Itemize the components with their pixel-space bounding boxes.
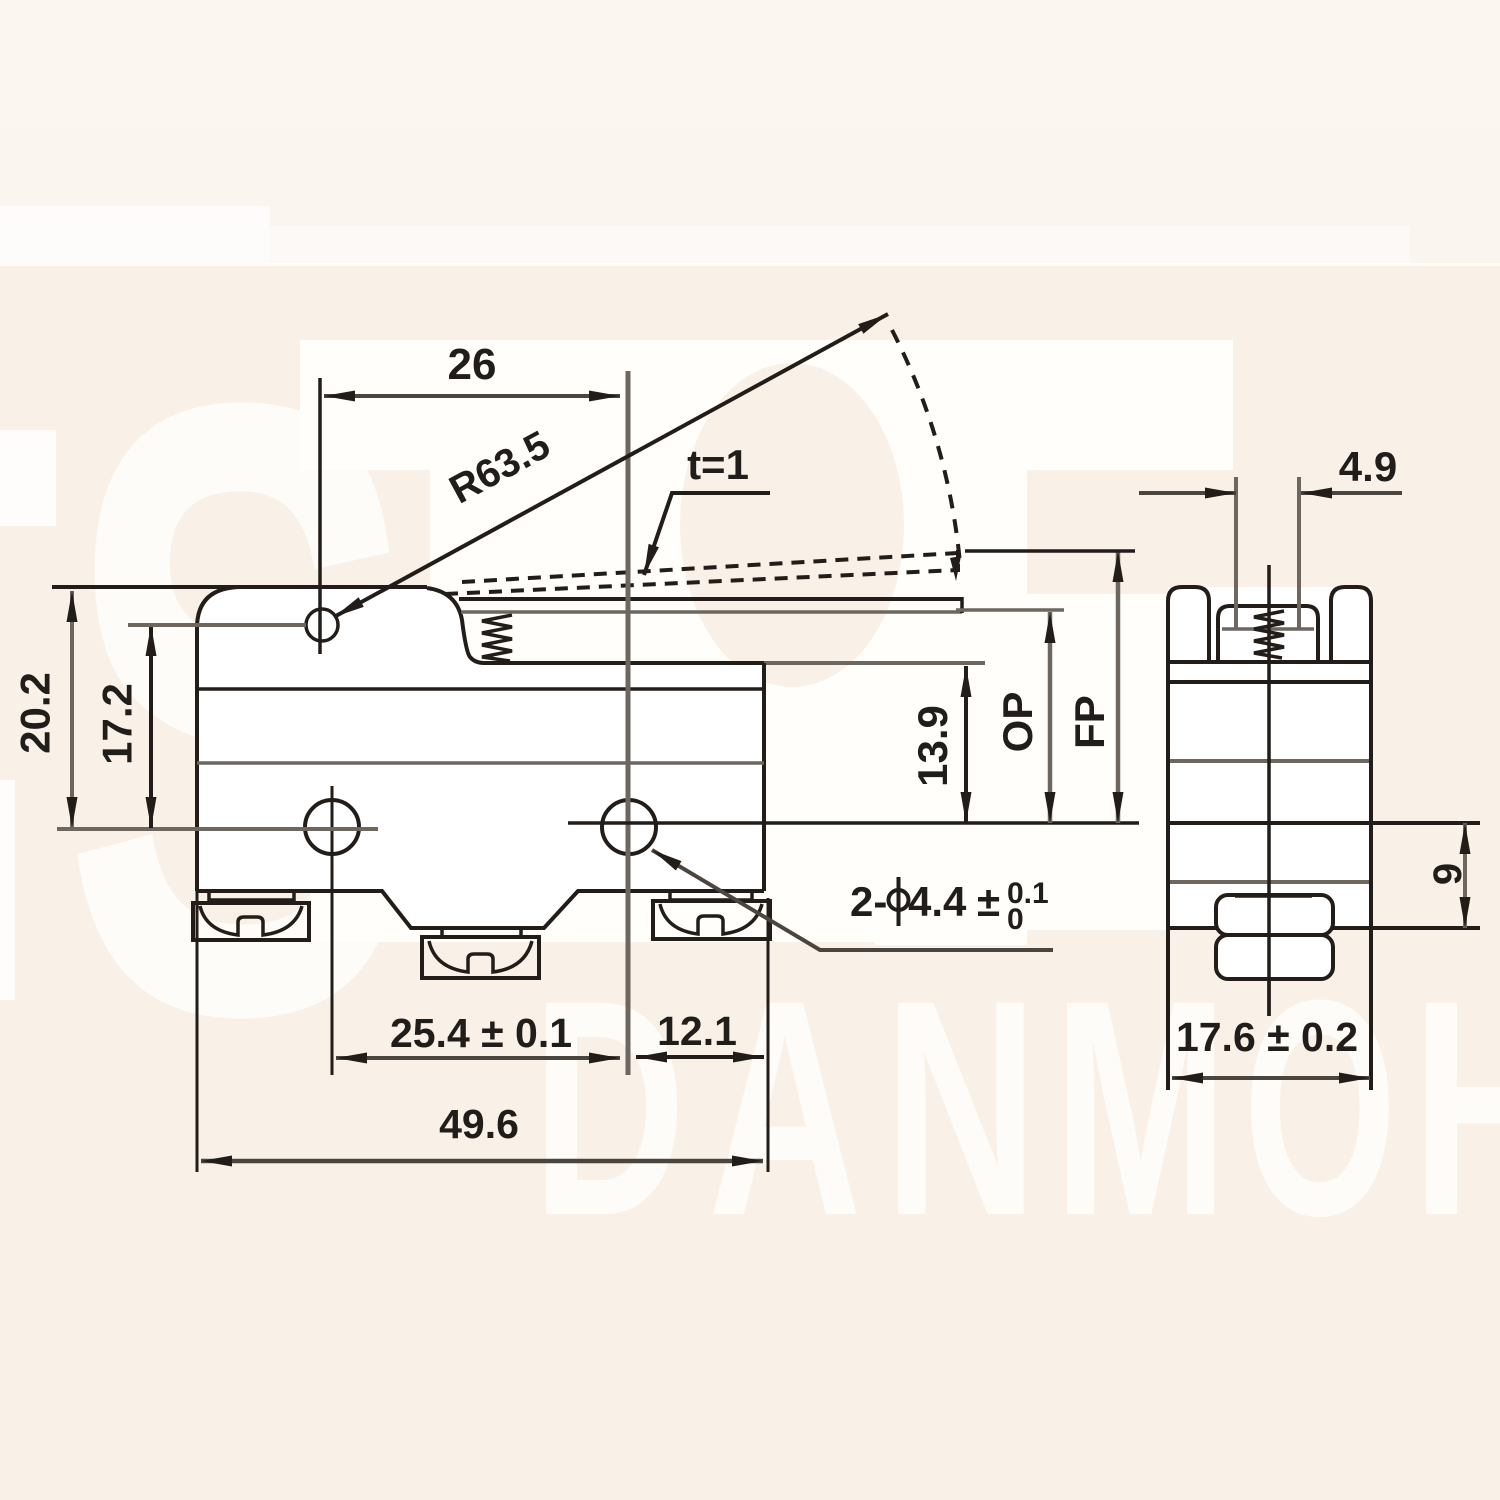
watermark top band (0, 0, 1500, 264)
watermark white cloud (300, 340, 1233, 945)
terminal 1 screw dome and slot (200, 906, 302, 935)
dim 26 line (324, 394, 620, 398)
spring inside recess (482, 615, 512, 661)
left hole horizontal centerline (grey) (57, 827, 378, 831)
main view body white fill (197, 587, 764, 928)
12.1 right extension line (767, 898, 770, 1172)
dim 4.9 line right part (1301, 491, 1402, 495)
left mounting hole (305, 800, 359, 854)
lever tip end cap (960, 597, 964, 613)
plunger recess hook curve (427, 588, 484, 663)
terminal 3 tab (670, 891, 752, 900)
side terminal lower box (1216, 935, 1333, 979)
dim 4.9 line left part (1139, 491, 1236, 495)
left edge white slivers (0, 430, 56, 526)
side view vertical centerline (1267, 565, 1271, 1016)
right ear (lever edge) (1331, 587, 1371, 662)
svg-text:OP: OP (994, 692, 1041, 753)
body left edge extension down to 49.6 dim (196, 891, 199, 1172)
terminal 2 screw dome and slot (429, 941, 532, 972)
svg-text:FP: FP (1066, 695, 1113, 749)
R63.5 leader line (334, 314, 888, 617)
svg-text:2-: 2- (850, 878, 887, 925)
terminal 1 tab (209, 891, 294, 900)
terminal 1 head box (193, 903, 309, 940)
side view body white fill (1168, 587, 1371, 928)
side centerline through terminal (1267, 895, 1271, 1016)
lever free position upper dashed line (462, 553, 958, 582)
svg-text:17.2: 17.2 (94, 683, 141, 765)
body top right shelf line (484, 661, 764, 665)
svg-text:25.4 ± 0.1: 25.4 ± 0.1 (390, 1010, 572, 1056)
body right edge (762, 663, 766, 891)
lever top line (solid, operated position) (459, 597, 962, 601)
svg-text:D: D (532, 937, 686, 1280)
plunger block (1218, 606, 1318, 660)
13.9 top extension line (grey) (764, 661, 985, 665)
lever swing dashed arc (892, 330, 960, 563)
left hole vertical centerline / 25.4 extension (331, 786, 334, 1075)
t=1 leader (644, 493, 770, 575)
OP top extension line (956, 608, 1064, 612)
svg-text:t=1: t=1 (687, 441, 749, 488)
svg-text:0: 0 (1007, 903, 1024, 936)
side body top line (1168, 660, 1371, 664)
terminal 3 head box (653, 901, 770, 939)
pivot hole (306, 609, 338, 641)
dim 17.6 line (1172, 1076, 1370, 1080)
svg-text:4.9: 4.9 (1339, 443, 1397, 490)
lever free position dashed end cap (956, 550, 960, 572)
left ear (lever edge) (1168, 587, 1209, 662)
long grey vertical extension (26 right / 12.1 left) (626, 371, 631, 1075)
dim 12.1 line (636, 1055, 764, 1059)
side body line 4 (grey) (1168, 880, 1371, 884)
svg-text:26: 26 (448, 340, 497, 389)
body internal seam line 2 (grey) (197, 761, 764, 765)
lever bottom line (grey) (461, 610, 962, 614)
svg-text:M: M (1053, 937, 1228, 1280)
right hole horizontal centerline / dim reference (568, 821, 1139, 825)
17.2 top extension line (grey) (128, 623, 306, 627)
side body bottom + 9 bottom extension (1168, 926, 1480, 930)
lever free position lower dashed line (445, 570, 958, 594)
side body line 2 (1168, 680, 1371, 684)
2-phi4.4 leader line (652, 850, 1053, 950)
FP top extension line (965, 549, 1135, 553)
dim 17.2 line (149, 625, 153, 828)
dim 25.4 line (336, 1056, 620, 1060)
svg-text:20.2: 20.2 (12, 672, 59, 754)
plunger internal grey line (1222, 627, 1314, 631)
svg-text:49.6: 49.6 (439, 1101, 519, 1147)
side body hole centerline + 9 top extension (1168, 821, 1480, 825)
side view spring (1254, 611, 1284, 658)
right mounting hole (602, 800, 656, 854)
svg-text:12.1: 12.1 (657, 1008, 737, 1054)
dim OP line (1048, 612, 1053, 823)
terminal 2 tab (442, 928, 521, 937)
side terminal inner top line (1235, 894, 1312, 898)
svg-text:13.9: 13.9 (909, 705, 956, 787)
terminal 2 head box (422, 937, 539, 978)
svg-text:A: A (708, 937, 862, 1280)
body internal seam line 1 (197, 687, 764, 691)
dim 13.9 line (964, 666, 968, 823)
svg-text:H: H (1412, 937, 1500, 1280)
side body line 3 (grey) (1168, 759, 1371, 763)
pivot vertical centerline / 26 left extension (318, 378, 322, 654)
dim FP line (1116, 551, 1121, 823)
dim 9 line (1463, 823, 1467, 928)
svg-text:9: 9 (1426, 863, 1470, 885)
4.9 left extension line (1234, 477, 1238, 628)
dim 20.2 line (70, 591, 74, 828)
cream blob over cloud (680, 363, 904, 687)
side body left edge + 17.6 extension (1166, 662, 1170, 1090)
terminal 3 screw dome and slot (660, 904, 762, 934)
4.9 right extension line (1297, 477, 1301, 628)
body bottom edge with terminal notch (197, 891, 764, 928)
body top-left rounded corner (197, 587, 242, 632)
body left edge (195, 628, 199, 891)
body top edge + 20.2 left extension line (52, 585, 427, 589)
svg-text:4.4: 4.4 (908, 878, 967, 925)
svg-text:±: ± (977, 878, 1000, 925)
svg-text:N: N (884, 937, 1038, 1280)
svg-text:O: O (1243, 937, 1397, 1280)
side body right edge + 17.6 extension (1369, 662, 1373, 1090)
svg-text:17.6 ± 0.2: 17.6 ± 0.2 (1176, 1014, 1358, 1060)
dim 49.6 line (201, 1159, 763, 1164)
side terminal upper box (1216, 895, 1333, 935)
